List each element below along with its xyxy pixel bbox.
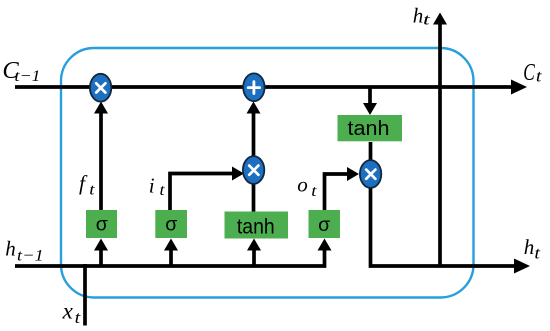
multiply node mid (input gate) <box>243 156 264 184</box>
wire: candidate branch from h line up into tanh box <box>252 250 256 266</box>
arrowhead into add node bottom <box>247 102 261 114</box>
arrowhead into multiply node mid left <box>232 167 244 181</box>
wire: i branch from h line up into sigma i <box>169 250 173 266</box>
arrowhead into sigma o bottom <box>318 239 332 251</box>
wire: tanh output up to multiply node mid <box>252 183 256 212</box>
arrowhead into sigma i bottom <box>164 239 178 251</box>
svg-text:σ: σ <box>318 214 330 236</box>
LSTM cell boundary (blue rounded rectangle) <box>61 48 474 298</box>
arrowhead h_t top <box>433 13 447 25</box>
svg-text:tanh: tanh <box>237 215 275 239</box>
svg-text:tanh: tanh <box>348 117 390 140</box>
arrowhead into sigma f bottom <box>94 239 108 251</box>
svg-text:i: i <box>149 174 155 198</box>
svg-text:t: t <box>311 183 317 200</box>
multiply node right (output gate) <box>360 160 381 188</box>
arrowhead C_t output <box>511 80 527 95</box>
sigma o gate box <box>309 210 341 238</box>
svg-text:t−1: t−1 <box>17 247 44 264</box>
svg-text:t: t <box>423 11 431 28</box>
wire: sigma i output up and right to multiply node mid <box>170 174 233 211</box>
svg-text:x: x <box>62 299 74 324</box>
svg-text:C: C <box>523 59 535 86</box>
wire: multiply right down and right to h_t output <box>371 187 516 266</box>
svg-text:h: h <box>413 3 424 27</box>
multiply node 1 (forget gate) <box>90 74 111 102</box>
arrowhead into tanh bottom box <box>247 239 261 251</box>
wire: tanh upper output down to multiply right <box>369 142 373 161</box>
svg-text:t−1: t−1 <box>15 68 41 85</box>
svg-text:σ: σ <box>165 214 177 236</box>
svg-text:h: h <box>524 235 535 259</box>
wire: sigma o output up and right to multiply node right <box>325 174 349 210</box>
wire: x_t vertical input <box>83 264 87 326</box>
wire: C line (top horizontal cell-state path) <box>15 85 513 89</box>
svg-text:t: t <box>160 182 166 199</box>
wire: C line branch down into tanh upper box <box>368 88 372 104</box>
svg-text:h: h <box>5 237 16 261</box>
arrowhead into multiply node right left side <box>347 167 359 181</box>
wire: h_t branch vertical up through cell to top <box>438 23 442 266</box>
add node (cell state update) <box>243 73 264 101</box>
svg-text:t: t <box>89 182 95 199</box>
arrowhead h_t output right <box>514 259 530 274</box>
wire: h_{t-1} bottom horizontal input path with corner up into sigma o <box>15 250 325 266</box>
arrowhead into tanh upper top <box>363 103 377 115</box>
arrowhead into multiply node 1 <box>94 102 108 114</box>
wire: sigma f output up to multiply node <box>99 112 103 210</box>
sigma i gate box <box>155 210 187 238</box>
wire: multiply mid up to add node <box>252 112 256 157</box>
wire: f branch from h line up into sigma f <box>99 250 103 266</box>
svg-text:σ: σ <box>96 214 108 236</box>
tanh candidate box <box>225 212 289 239</box>
svg-text:o: o <box>297 173 308 197</box>
sigma f gate box <box>86 210 117 238</box>
tanh output box <box>338 115 403 141</box>
